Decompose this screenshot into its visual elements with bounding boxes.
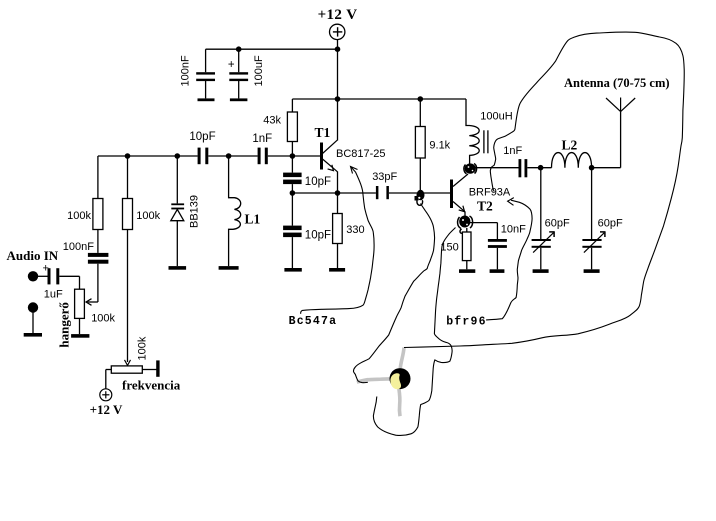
svg-text:T1: T1	[315, 125, 331, 140]
+12V supply terminal	[330, 24, 345, 39]
wire supply stem	[337, 40, 339, 50]
wire base line	[98, 155, 198, 157]
node T1 base	[290, 153, 296, 159]
svg-text:100uF: 100uF	[253, 55, 265, 86]
wire power rail horizontal	[292, 98, 466, 100]
resistor 330	[333, 193, 343, 268]
wire top rail	[206, 48, 338, 50]
input terminal bottom	[28, 302, 38, 312]
trimmer capacitor 60pF left	[532, 168, 555, 270]
resistor 9.1k	[415, 99, 425, 193]
physical transistor body (black disc)	[390, 368, 411, 389]
svg-text:100uH: 100uH	[480, 111, 512, 123]
svg-text:1nF: 1nF	[252, 133, 272, 145]
annotation curve base-to-left-lead	[353, 204, 434, 383]
diode BB139 varicap	[171, 156, 184, 266]
ground (330)	[329, 268, 345, 272]
wire L2 to antenna	[592, 167, 621, 169]
svg-text:100k: 100k	[136, 210, 160, 222]
ground (hangero)	[71, 334, 89, 338]
wire emitter line	[292, 192, 376, 194]
ground (60pF right)	[584, 269, 600, 273]
capacitor 100nF audio	[88, 253, 109, 302]
capacitor 10pF feedback lower	[283, 193, 302, 268]
svg-text:100k: 100k	[67, 210, 91, 222]
svg-text:BB139: BB139	[189, 195, 201, 228]
ground (audio input)	[24, 333, 42, 337]
ground (10nF)	[490, 269, 505, 273]
capacitor 10nF	[488, 223, 507, 270]
node blob T2 base (scribble)	[415, 190, 425, 206]
svg-text:+: +	[43, 263, 49, 275]
capacitor 100uF electrolytic	[228, 49, 248, 98]
svg-text:+12 V: +12 V	[90, 402, 123, 417]
node L2 right	[589, 165, 595, 171]
ground (100uF supply)	[230, 98, 248, 101]
node BB139	[175, 153, 181, 159]
svg-text:9.1k: 9.1k	[429, 140, 450, 152]
potentiometer hangero 100k	[75, 276, 98, 334]
ground (10pF)	[284, 268, 301, 272]
wire power rail vertical	[337, 49, 339, 140]
node blob T2 collector (scribble)	[464, 163, 477, 173]
capacitor 1nF series	[258, 148, 268, 165]
resistor 150	[462, 228, 471, 269]
svg-text:100nF: 100nF	[180, 55, 192, 86]
node blob T2 emitter (scribble)	[458, 216, 473, 234]
wire 33pF to T2 base	[389, 192, 450, 194]
capacitor 10pF series	[198, 148, 209, 165]
potentiometer frekvencia 100k	[106, 360, 160, 389]
node T1 emitter	[335, 190, 341, 196]
ground (60pF left)	[533, 269, 549, 273]
annotation arrow to T2	[486, 200, 532, 320]
svg-text:60pF: 60pF	[598, 218, 623, 230]
svg-text:L1: L1	[245, 212, 261, 227]
wire 1nF to L2	[527, 167, 551, 169]
svg-text:10pF: 10pF	[189, 131, 215, 143]
capacitor 100nF supply decoupling	[196, 49, 215, 98]
ground (L1)	[219, 266, 239, 270]
svg-text:hangerő: hangerő	[57, 302, 72, 348]
wire collector to 1nF	[475, 167, 519, 169]
trimmer capacitor 60pF right	[582, 168, 605, 270]
resistor 100k second	[123, 156, 133, 362]
capacitor 1nF output	[519, 159, 528, 177]
capacitor 10pF feedback upper	[283, 156, 302, 193]
physical transistor die (yellow)	[390, 373, 401, 389]
antenna	[606, 98, 635, 168]
annotation arrow to T1	[301, 167, 374, 314]
physical transistor lead top (gray)	[400, 348, 404, 369]
svg-text:frekvencia: frekvencia	[122, 378, 181, 393]
physical transistor lead left (gray)	[357, 379, 391, 382]
resistor R 43k	[287, 99, 297, 156]
+12V bottom terminal	[100, 389, 112, 401]
svg-text:Antenna (70-75 cm): Antenna (70-75 cm)	[564, 76, 670, 90]
node 10pF junction	[290, 190, 296, 196]
annotation curve emitter-to-bottom-lead	[373, 228, 455, 436]
wire	[208, 155, 257, 157]
node 100uF tap	[236, 46, 242, 52]
svg-text:Bc547a: Bc547a	[289, 315, 338, 328]
svg-text:Audio IN: Audio IN	[7, 248, 59, 263]
node L1 top	[226, 153, 232, 159]
svg-text:T2: T2	[477, 199, 493, 214]
svg-text:1nF: 1nF	[503, 145, 522, 157]
node L2 left	[538, 165, 544, 171]
resistor 100k left	[93, 156, 103, 253]
ground (BB139)	[169, 266, 187, 270]
wire emitter to 10nF	[469, 222, 497, 224]
capacitor 1uF	[38, 263, 80, 285]
inductor L2	[552, 153, 592, 168]
svg-text:10pF: 10pF	[305, 230, 331, 242]
wire input ground	[32, 313, 34, 334]
node power rail branch	[335, 96, 341, 102]
svg-text:BC817-25: BC817-25	[336, 148, 386, 160]
capacitor 33pF	[376, 186, 389, 199]
svg-text:43k: 43k	[263, 115, 281, 127]
node 9.1k top	[418, 96, 424, 102]
svg-text:BRF93A: BRF93A	[469, 187, 511, 199]
svg-text:bfr96: bfr96	[446, 316, 487, 329]
inductor 100uH with core	[466, 99, 479, 167]
transistor T2 BRF93A	[450, 174, 468, 218]
svg-text:100k: 100k	[91, 313, 115, 325]
svg-text:100nF: 100nF	[63, 241, 94, 253]
input terminal top	[28, 271, 38, 281]
svg-text:330: 330	[346, 224, 364, 236]
ground (150)	[459, 269, 475, 273]
svg-text:60pF: 60pF	[545, 218, 570, 230]
svg-text:100k: 100k	[137, 336, 149, 360]
svg-text:10pF: 10pF	[305, 176, 331, 188]
svg-text:33pF: 33pF	[372, 171, 397, 183]
node 100k-2	[125, 153, 131, 159]
svg-text:L2: L2	[562, 138, 578, 153]
svg-text:+: +	[228, 59, 235, 71]
inductor L1	[229, 156, 241, 266]
annotation loop collector-to-lead	[404, 32, 684, 347]
physical transistor lead bottom (gray)	[399, 388, 400, 416]
svg-text:1uF: 1uF	[44, 289, 63, 301]
ground (100nF supply)	[198, 98, 215, 101]
svg-text:+12 V: +12 V	[318, 7, 358, 23]
wire	[268, 155, 320, 157]
transistor T1 BC817-25	[320, 140, 338, 193]
svg-text:10nF: 10nF	[501, 224, 526, 236]
node top rail / supply	[335, 46, 341, 52]
